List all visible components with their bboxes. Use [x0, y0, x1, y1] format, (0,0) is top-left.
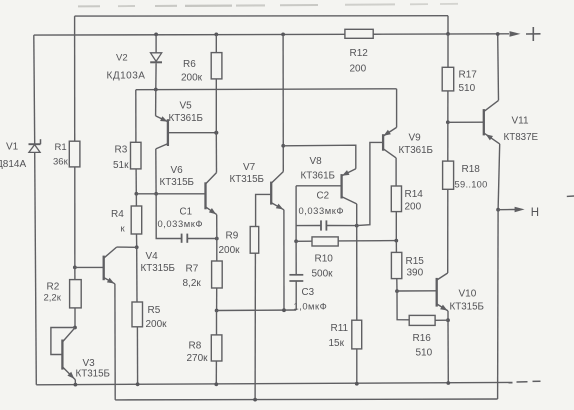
resistor R7 [212, 261, 223, 288]
output arrow [515, 207, 525, 213]
transistor V6 base lead [136, 193, 205, 195]
svg-text:R2: R2 [47, 282, 60, 293]
svg-text:51к: 51к [113, 160, 129, 171]
label R16 [413, 333, 432, 344]
transistor V8 emitter lead [342, 169, 356, 176]
wire R2 bottom lead [74, 308, 76, 328]
label R6 value [181, 73, 203, 84]
wire R10 left lead [296, 240, 312, 242]
label R8 [189, 341, 202, 352]
wire R16 left feed [397, 291, 409, 320]
wire R17 bottom lead [447, 91, 449, 122]
label R12 value [350, 64, 367, 75]
label R18 value [455, 180, 488, 190]
label R9 value [219, 245, 241, 256]
transistor V4 base lead [75, 266, 104, 268]
resistor R5 [132, 302, 143, 327]
svg-text:КТ315Б: КТ315Б [450, 302, 484, 313]
svg-text:КТ315Б: КТ315Б [230, 174, 264, 185]
node R4/R5/V4-collector junction [135, 245, 139, 249]
resistor R4 [131, 206, 142, 234]
transistor V6 base bar [204, 182, 206, 209]
wire left rail lower (V1 anode to - bus) [35, 152, 37, 384]
label V8 [310, 156, 323, 167]
resistor R9 [250, 227, 259, 254]
transistor V9 emitter lead [383, 127, 397, 136]
label V5 type [169, 113, 203, 124]
wire right margin dash [567, 195, 574, 197]
wire left rail upper (to V1 cathode) [33, 35, 36, 144]
svg-text:R5: R5 [148, 305, 161, 316]
transistor V9 base bar [382, 134, 384, 151]
capacitor C3 [289, 275, 303, 281]
label R15 value [407, 268, 424, 279]
wire V10 collector column to R18 [447, 189, 449, 273]
label R2 [47, 282, 60, 293]
resistor R17 [442, 67, 454, 91]
label C1 value [158, 218, 204, 229]
svg-text:Н: Н [531, 207, 539, 219]
svg-text:510: 510 [459, 83, 476, 94]
wire R1 top lead [74, 16, 76, 141]
wire V2 cathode to mid rail [155, 63, 157, 89]
zener diode V1 [29, 139, 41, 152]
wire R16 right lead [435, 319, 448, 321]
resistor R12 [345, 29, 373, 38]
wire R1 bottom to V4 base node [74, 167, 76, 268]
label R9 [226, 231, 239, 242]
svg-text:200к: 200к [146, 319, 168, 330]
label V6 [171, 165, 184, 176]
label V6 type [160, 177, 194, 188]
node V5 base / R6 column junction [214, 131, 218, 135]
scan smudge [78, 4, 458, 7]
wire R15 bottom lead [396, 279, 398, 292]
node V11 collector on + bus [496, 32, 500, 36]
wire + bus right of R12 [373, 33, 509, 35]
label V4 type [141, 263, 175, 274]
svg-text:КТ315Б: КТ315Б [141, 263, 175, 274]
svg-text:КТ837Е: КТ837Е [504, 132, 539, 143]
label R4 value [121, 224, 126, 235]
svg-text:КТ315Б: КТ315Б [76, 369, 110, 380]
wire V11 emitter down to feedback line [497, 210, 500, 399]
svg-text:КТ361Б: КТ361Б [399, 145, 433, 156]
transistor V5 base lead [168, 132, 216, 134]
node R7/R8/emitter-line junction [215, 309, 219, 313]
svg-text:V10: V10 [459, 289, 477, 300]
label V11 [512, 116, 529, 127]
svg-text:59..100: 59..100 [455, 180, 488, 190]
resistor R8 [211, 335, 222, 361]
transistor V6 emitter lead [206, 207, 217, 215]
svg-text:V4: V4 [146, 251, 159, 262]
svg-text:8,2к: 8,2к [183, 278, 202, 289]
label R11 value [329, 338, 345, 349]
label R17 value [459, 83, 476, 94]
svg-text:200к: 200к [181, 73, 203, 84]
svg-text:V6: V6 [171, 165, 184, 176]
label R7 value [183, 278, 202, 289]
svg-text:R6: R6 [183, 59, 196, 70]
resistor R15 [391, 252, 401, 278]
label V1 value [0, 159, 26, 170]
transistor V5 collector lead [156, 144, 168, 149]
label V11 type [504, 132, 539, 143]
capacitor C1 [182, 234, 188, 243]
transistor V3 emitter lead [62, 367, 75, 380]
wire R7 bottom lead [216, 288, 218, 311]
node V10 emitter on - bus [446, 381, 450, 385]
node output Н junction [496, 208, 500, 212]
transistor V8 base bar [340, 174, 342, 198]
label R8 value [187, 353, 209, 364]
svg-text:R16: R16 [413, 333, 432, 344]
wire top rail segment (R1 top feed) [75, 15, 448, 17]
svg-text:R18: R18 [462, 164, 481, 175]
label R1 [55, 142, 67, 153]
resistor R6 [211, 53, 222, 79]
svg-text:R7: R7 [186, 264, 199, 275]
transistor V5 emitter lead [156, 116, 168, 122]
wire V2 anode lead [155, 34, 157, 52]
svg-text:200к: 200к [219, 245, 241, 256]
svg-text:15к: 15к [329, 338, 345, 349]
wire mid rail to V5 emitter [155, 90, 157, 116]
label R16 value [416, 348, 433, 359]
node V7 collector on + bus [281, 33, 285, 37]
wire C3 bottom lead [295, 281, 297, 310]
svg-text:V11: V11 [512, 116, 529, 127]
svg-text:C1: C1 [180, 207, 193, 218]
label V10 [459, 289, 477, 300]
node V2/V5 on mid rail [154, 88, 158, 92]
svg-text:R8: R8 [189, 341, 202, 352]
transistor V3 base bar [61, 340, 63, 370]
node C1/V6-emitter/R7 junction [215, 237, 219, 241]
label V7 [243, 162, 256, 173]
wire V5 collector down to V6 base node [155, 149, 157, 194]
label R14 [405, 189, 424, 200]
transistor V6 collector lead [206, 173, 217, 184]
svg-text:V3: V3 [83, 358, 96, 369]
wire bottom - bus [36, 382, 512, 384]
label R11 [331, 323, 349, 334]
- bus dash 1 [517, 381, 528, 383]
svg-text:R17: R17 [459, 70, 478, 81]
node V5-collector/C1/V6-base junction [154, 192, 158, 196]
node R6 top on + bus [214, 33, 218, 37]
label R15 [406, 256, 425, 267]
wire R18 top lead [447, 122, 449, 161]
label R10 value [312, 269, 334, 280]
transistor V4 emitter lead [104, 278, 115, 284]
wire C3 top lead [295, 241, 297, 274]
svg-text:270к: 270к [187, 353, 209, 364]
wire V7 emitter column [283, 210, 285, 310]
label C3 [302, 287, 315, 298]
svg-text:C3: C3 [302, 287, 315, 298]
label R18 [462, 164, 481, 175]
label V10 type [450, 302, 484, 313]
transistor V3 base loop [51, 327, 75, 354]
label V3 [83, 358, 96, 369]
svg-text:390: 390 [407, 268, 424, 279]
diode V2 [150, 53, 162, 63]
resistor R14 [391, 186, 401, 212]
wire feedback line (output to R9/V4) [115, 398, 497, 401]
transistor V10 base bar [436, 278, 438, 307]
label V4 [146, 251, 159, 262]
transistor V4 base bar [103, 256, 105, 281]
svg-text:C2: C2 [317, 191, 330, 202]
resistor R2 [70, 280, 82, 308]
svg-text:1,0мкФ: 1,0мкФ [294, 301, 328, 312]
node V3 emitter on - bus [74, 383, 78, 387]
node R5 on - bus [136, 382, 140, 386]
wire C2 right lead [327, 225, 357, 227]
svg-text:V9: V9 [409, 133, 422, 144]
resistor R16 [409, 315, 435, 325]
label V9 [409, 133, 422, 144]
wire V9 emitter column [396, 89, 398, 128]
transistor V7 emitter lead [271, 203, 284, 210]
transistor V11 collector lead [484, 100, 499, 111]
label V2 value [107, 71, 146, 82]
wire V8 collector column [356, 204, 358, 320]
node R3/R4/V6-base junction [134, 192, 138, 196]
transistor V7 collector lead [271, 172, 283, 184]
wire V4 collector to R4/R5 node [117, 246, 137, 248]
node V3 collector junction [73, 326, 77, 330]
wire V10 emitter to R16 node [447, 311, 449, 320]
transistor V3 collector lead [62, 328, 75, 342]
label V7 type [230, 174, 264, 185]
wire R8 bottom lead [215, 361, 217, 384]
+ terminal arrow [510, 31, 521, 37]
transistor V7 base bar [270, 182, 272, 205]
svg-text:R1: R1 [55, 142, 67, 153]
transistor V8 collector lead [342, 197, 357, 204]
node R15/V10-base/R16 junction [395, 289, 399, 293]
svg-text:500к: 500к [312, 269, 334, 280]
node R16 right junction [446, 318, 450, 322]
label R3 value [113, 160, 129, 171]
node V11 base junction [446, 120, 450, 124]
svg-text:510: 510 [416, 348, 433, 359]
wire R6 bottom lead (crosses mid rail) [215, 79, 217, 133]
node C2/V8-collector/V9-base junction [355, 224, 359, 228]
transistor V4 collector lead [104, 247, 117, 258]
svg-text:КТ361Б: КТ361Б [301, 171, 335, 182]
label V5 [180, 101, 193, 112]
wire R7 top lead [216, 239, 218, 262]
transistor V11 base bar [483, 109, 485, 135]
capacitor C2 [321, 220, 326, 230]
node V2 top on + bus [154, 33, 158, 37]
transistor V9 collector lead [383, 149, 396, 158]
wire R3 top lead [135, 90, 137, 143]
transistor V10 emitter lead [437, 304, 448, 311]
svg-text:R10: R10 [315, 254, 334, 265]
svg-text:0,033мкФ: 0,033мкФ [299, 205, 345, 216]
node R8 on - bus [214, 382, 218, 386]
svg-text:R12: R12 [350, 48, 369, 59]
svg-text:V5: V5 [180, 101, 193, 112]
wire mid rail (R3 top to V9 emitter) [136, 88, 397, 91]
label V3 type [76, 369, 110, 380]
transistor V8 base lead [296, 185, 342, 187]
svg-text:0,033мкФ: 0,033мкФ [158, 218, 204, 229]
transistor V11 base lead [448, 121, 484, 123]
label R14 value [405, 202, 422, 213]
wire V10 emitter to - bus [447, 320, 449, 383]
wire R17 top lead [447, 34, 449, 67]
wire R6 top lead [215, 34, 217, 52]
resistor R3 [131, 142, 142, 169]
wire R5 top lead [136, 247, 138, 302]
wire V4 emitter column (crosses - bus) [114, 284, 116, 400]
label R5 value [146, 319, 168, 330]
node R10/R14/R15 junction [394, 239, 398, 243]
svg-text:Д814А: Д814А [0, 159, 26, 170]
wire V5-base node to V6 collector [215, 133, 217, 173]
wire V8 base column [295, 186, 297, 242]
svg-text:36к: 36к [53, 157, 69, 168]
label C2 value [299, 205, 345, 216]
wire V8 emitter feed [283, 145, 356, 169]
resistor R11 [352, 320, 362, 349]
transistor V5 base bar [167, 119, 169, 146]
wire output stub [498, 209, 516, 211]
label output Н [531, 207, 539, 219]
wire top rail drop to + bus [447, 16, 449, 34]
wire R14 bottom lead [395, 212, 397, 241]
node V7-collector / V8-emitter tee [281, 144, 285, 148]
node R9 on feedback line [253, 398, 257, 402]
label V9 type [399, 145, 433, 156]
label R5 [148, 305, 161, 316]
label V2 [116, 53, 128, 64]
resistor R18 [443, 161, 454, 189]
svg-text:R14: R14 [405, 189, 424, 200]
svg-text:2,2к: 2,2к [44, 293, 62, 304]
svg-text:V8: V8 [310, 156, 323, 167]
label C1 [180, 207, 193, 218]
transistor V10 base lead [397, 290, 437, 292]
wire R8 top lead [216, 311, 218, 335]
label R2 value [44, 293, 62, 304]
node R1/R2/V4-base junction [73, 266, 77, 270]
wire C1 left lead [156, 194, 181, 239]
svg-text:R11: R11 [331, 323, 349, 334]
svg-text:КД103А: КД103А [107, 71, 146, 82]
transistor V9 base lead [357, 142, 383, 225]
wire V3 emitter to - bus [74, 380, 76, 385]
transistor V10 collector lead [437, 273, 448, 280]
transistor V7 base lead [256, 194, 272, 226]
wire V7 collector column [282, 34, 284, 171]
label C2 [317, 191, 330, 202]
wire R4 bottom lead [136, 234, 138, 247]
svg-text:R3: R3 [115, 145, 128, 156]
wire C1 right lead [188, 238, 217, 240]
wire R5 bottom lead [136, 327, 138, 385]
label R10 [315, 254, 334, 265]
svg-text:V7: V7 [243, 162, 256, 173]
wire + bus left of R12 [34, 33, 345, 36]
wire R3 bottom lead [135, 169, 137, 194]
svg-text:R4: R4 [111, 209, 124, 220]
wire emitter line (R7 to C3 bottom) [217, 309, 297, 312]
wire R14 top lead [395, 158, 397, 186]
node V7 emitter on emitter line [282, 308, 286, 312]
wire C2 left lead [296, 225, 321, 227]
wire R10 right lead [338, 240, 396, 242]
node R17 top on + bus [446, 32, 450, 36]
svg-text:200: 200 [405, 202, 422, 213]
wire V11 emitter to output node [498, 144, 500, 210]
wire V6 emitter to C1 node [216, 215, 218, 239]
wire R2 top lead [74, 267, 76, 279]
wire V11 collector to + bus [497, 34, 500, 100]
label V8 type [301, 171, 335, 182]
transistor V11 emitter lead [484, 133, 500, 144]
label C3 value [294, 301, 328, 312]
- bus dash 2 [533, 380, 541, 382]
+ terminal symbol [526, 27, 541, 41]
node R11 on - bus [355, 382, 359, 386]
wire R15 top lead [395, 241, 397, 253]
wire R4 top lead [135, 194, 137, 206]
label R17 [459, 70, 478, 81]
svg-text:КТ361Б: КТ361Б [169, 113, 203, 124]
svg-text:V2: V2 [116, 53, 128, 64]
label R1 value [53, 157, 69, 168]
resistor R10 [312, 237, 338, 246]
wire R9 bottom column (crosses to feedback line) [254, 253, 256, 399]
label V1 [6, 142, 19, 153]
label R7 [186, 264, 199, 275]
node R10 left junction [294, 239, 298, 243]
label R6 [183, 59, 196, 70]
svg-text:R9: R9 [226, 231, 239, 242]
label R12 [350, 48, 369, 59]
svg-text:R15: R15 [406, 256, 425, 267]
svg-text:КТ315Б: КТ315Б [160, 177, 194, 188]
svg-text:V1: V1 [6, 142, 19, 153]
wire R11 bottom lead [356, 349, 358, 384]
svg-text:200: 200 [350, 64, 367, 75]
resistor R1 [69, 141, 80, 167]
label R3 [115, 145, 128, 156]
label R4 [111, 209, 124, 220]
